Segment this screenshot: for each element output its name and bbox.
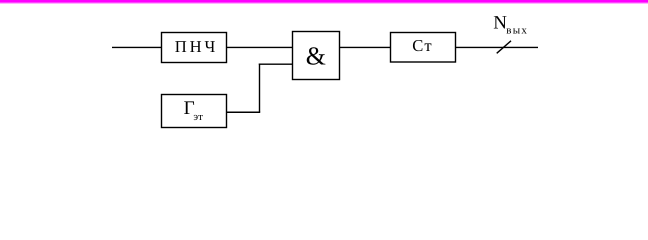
AND gate U2 (&amp;): [293, 32, 340, 80]
wire: generator output horizontal: [227, 111, 261, 113]
svg-text:N: N: [493, 13, 507, 34]
wire: counter output: [456, 46, 539, 48]
svg-text:Ст: Ст: [412, 36, 432, 55]
node N_vyh output label: [493, 13, 527, 37]
bus slash on output: [497, 41, 511, 54]
wire: vertical riser to AND gate: [259, 64, 261, 113]
block U1 PNC (voltage-to-frequency converter): [162, 33, 227, 63]
wire: PNC to AND gate: [227, 46, 293, 48]
svg-text:вых: вых: [506, 24, 527, 36]
svg-text:&: &: [306, 42, 326, 71]
magenta top rule: [0, 0, 648, 4]
wire: AND gate to counter: [340, 46, 391, 48]
block U3 Ct (counter): [391, 33, 456, 63]
svg-text:ПНЧ: ПНЧ: [175, 37, 216, 56]
svg-text:эт: эт: [193, 111, 203, 123]
wire: riser to AND gate second input: [259, 63, 293, 65]
block G_et (reference-frequency generator): [162, 95, 227, 128]
wire: input to PNC: [112, 46, 162, 48]
